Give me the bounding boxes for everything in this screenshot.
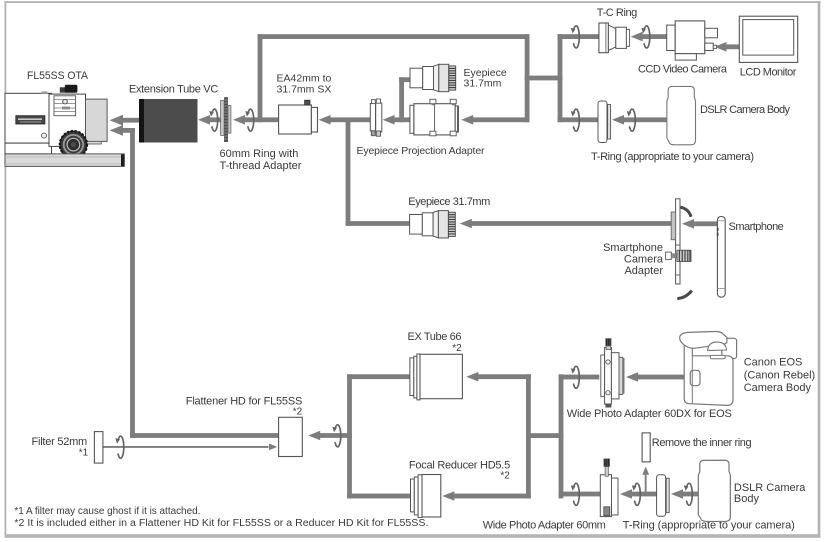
svg-text:*2: *2: [293, 406, 303, 417]
svg-text:EX Tube 66: EX Tube 66: [408, 331, 462, 343]
arrow into focal reducer: [442, 491, 454, 501]
thin arrow up to remove-inner-ring strip: [642, 467, 649, 475]
flattener HD box: [279, 417, 303, 456]
wire: 60mm ring to EA42 box: [245, 117, 280, 122]
svg-text:Wide Photo Adapter 60mm: Wide Photo Adapter 60mm: [483, 519, 606, 531]
arrow into extension tube right side: [198, 115, 210, 125]
arrow into telescope from flattener line: [110, 125, 124, 136]
60mm ring with T-thread adapter: [221, 101, 225, 136]
wire: smartphone row to middle eyepiece: [346, 221, 410, 226]
wire: 60DX arrow to Canon EOS: [638, 375, 685, 380]
wire: stub behind arrow to adapter body: [394, 117, 410, 122]
wire: vertical junction x260 up to top row: [258, 34, 263, 122]
wire: vertical1 top to EX tube left: [347, 374, 410, 379]
telescope black knob on top: [60, 87, 66, 92]
wire: vertical from telescope down to flattener row: [130, 128, 135, 438]
EA42mm adapter box: [279, 105, 312, 134]
svg-text:Filter 52mm: Filter 52mm: [32, 436, 88, 448]
svg-text:Adapter: Adapter: [624, 265, 663, 277]
rotation arrow right of 60mm ring: [245, 109, 253, 131]
smartphone: [717, 217, 725, 298]
telescope focus wheel: [60, 131, 87, 158]
svg-text:T-C Ring: T-C Ring: [597, 7, 638, 19]
rotation arrow on 60DX branch: [571, 366, 579, 388]
svg-text:Remove the inner ring: Remove the inner ring: [652, 437, 752, 449]
CCD video camera: [667, 25, 676, 50]
telescope focuser detail block: [54, 96, 76, 116]
eyepiece projection adapter body: [410, 105, 414, 133]
arrow into CCD from LCD: [714, 42, 726, 52]
T-ring bottom row: [657, 475, 670, 517]
smartphone adapter clamp pad: [671, 212, 675, 240]
focal reducer HD5.5: [411, 479, 415, 512]
arrow into projection adapter thin tube: [383, 115, 395, 125]
arrow into telescope from extension tube: [110, 115, 124, 126]
eyepiece 31.7mm middle: [410, 211, 456, 238]
svg-text:T-thread Adapter: T-thread Adapter: [220, 160, 302, 172]
svg-text:Body: Body: [734, 493, 760, 505]
DSLR camera body top row: [667, 86, 696, 144]
wire: vertical1 bottom to focal reducer left: [347, 494, 410, 499]
arrow into EX tube: [466, 372, 478, 382]
wire: bottom T-ring to DSLR: [683, 492, 701, 497]
smartphone adapter knob: [666, 252, 672, 259]
svg-text:31.7mm SX: 31.7mm SX: [277, 84, 332, 96]
arrow into projection adapter body: [461, 115, 473, 125]
wire: vertical 1 x349.5: [347, 374, 352, 498]
border frame bottom: [5, 534, 821, 538]
border frame right: [818, 1, 821, 537]
wire: vertical 3 x561: [559, 374, 564, 498]
wire: smartphone branch vertical x348: [346, 120, 351, 226]
svg-text:Wide Photo Adapter 60DX for EO: Wide Photo Adapter 60DX for EOS: [567, 408, 732, 420]
projection adapter screws: [430, 99, 436, 103]
arrow into middle eyepiece: [460, 219, 472, 229]
wire: T-C branch to funnel: [558, 34, 600, 39]
wire: smartphone to adapter stub: [694, 221, 718, 226]
filter 52mm: [94, 432, 103, 464]
rotation arrow right of 60mm adapter: [632, 483, 640, 505]
wire: thin filter line: [103, 446, 269, 448]
wire: focal reducer arrow to vertical 2: [454, 494, 531, 499]
telescope dovetail rail: [5, 154, 124, 167]
telescope top tab: [42, 91, 48, 93]
wire: eyepiece drop stub from eyepiece barrel: [399, 77, 411, 82]
arrow into EA42 right side: [319, 115, 331, 125]
svg-text:*2 It is included either in a: *2 It is included either in a Flattener …: [14, 518, 428, 529]
border frame left: [5, 1, 7, 537]
svg-text:Canon EOS: Canon EOS: [744, 357, 803, 369]
wire: vertical A x527: [525, 34, 530, 122]
border frame top: [5, 1, 821, 3]
svg-text:*2: *2: [452, 343, 462, 354]
svg-text:31.7mm: 31.7mm: [464, 77, 502, 89]
wire: eyepiece drop vertical: [399, 77, 404, 122]
wire: LCD to CCD stub: [726, 44, 740, 49]
Canon EOS camera body: [722, 338, 737, 358]
arrow into bottom T-ring: [671, 489, 683, 499]
svg-text:*1: *1: [79, 448, 89, 459]
wire: vertical 2 x528.4: [526, 374, 531, 498]
wire: eyepiece to smartphone adapter: [471, 221, 671, 226]
wire: vertical3 bottom to 60mm adapter: [559, 492, 601, 497]
svg-text:Flattener HD for FL55SS: Flattener HD for FL55SS: [186, 395, 302, 407]
svg-text:Smartphone: Smartphone: [603, 242, 663, 254]
telescope body screw: [42, 133, 47, 138]
wire: adapter body to right vertical A: [473, 117, 530, 122]
wire: flattener to vertical 1: [320, 433, 352, 438]
arrow into smartphone adapter: [682, 219, 694, 229]
arrow into T-C ring: [631, 32, 643, 42]
smartphone camera adapter bar: [676, 199, 680, 284]
wire: EX tube arrow to vertical 2: [478, 374, 531, 379]
wire: vertical3 top to 60DX adapter: [559, 375, 600, 380]
wide photo adapter 60DX: [601, 355, 605, 397]
T-C ring funnel: [599, 23, 609, 53]
arrow into flattener right side: [308, 431, 320, 441]
svg-text:(Canon Rebel): (Canon Rebel): [744, 369, 816, 381]
telescope lower clamp step: [5, 143, 52, 154]
wire: T-ring to DSLR body top row: [624, 117, 667, 122]
svg-text:T-Ring (appropriate to your ca: T-Ring (appropriate to your camera): [591, 151, 754, 163]
eyepiece 31.7mm top: [410, 64, 456, 91]
wire: H bridge top section: [525, 76, 563, 81]
rotation arrow right of flattener: [332, 425, 340, 447]
svg-text:Camera Body: Camera Body: [744, 382, 812, 394]
LCD monitor: [739, 16, 797, 62]
svg-text:FL55SS OTA: FL55SS OTA: [27, 70, 89, 82]
svg-text:LCD Monitor: LCD Monitor: [740, 67, 797, 79]
wire: flattener row horizontal to flattener box: [130, 433, 279, 438]
svg-text:CCD Video Camera: CCD Video Camera: [638, 64, 728, 76]
rotation arrow right of top T-ring: [627, 109, 635, 131]
T-ring top row: [598, 101, 611, 143]
svg-text:Focal Reducer HD5.5: Focal Reducer HD5.5: [409, 459, 510, 471]
svg-text:Extension Tube VC: Extension Tube VC: [129, 84, 218, 96]
svg-text:*2: *2: [500, 471, 510, 482]
wide photo adapter 60mm: [600, 475, 611, 517]
telescope logo plate: [16, 116, 45, 124]
rotation arrow left of 60mm ring: [209, 109, 217, 131]
wire: thin stem up to inner ring strip: [645, 474, 647, 494]
wire: top row horizontal: [258, 34, 530, 39]
arrow into 60mm ring: [233, 115, 245, 125]
extension tube VC box: [139, 99, 198, 143]
wire: T-ring branch from vertical B: [558, 117, 599, 122]
DSLR camera body bottom: [698, 460, 730, 521]
telescope drawtube: [86, 99, 108, 141]
svg-text:60mm Ring with: 60mm Ring with: [220, 148, 299, 160]
rotation arrow T-ring branch: [571, 109, 579, 131]
svg-text:*1 A filter may cause ghost if: *1 A filter may cause ghost if it is att…: [14, 506, 200, 517]
svg-text:DSLR Camera Body: DSLR Camera Body: [700, 104, 791, 116]
svg-text:DSLR Camera: DSLR Camera: [734, 482, 806, 494]
arrow into 60DX adapter: [626, 372, 638, 382]
wire: 60mm arrow to bottom T-ring: [632, 492, 657, 497]
svg-text:Eyepiece Projection Adapter: Eyepiece Projection Adapter: [357, 145, 486, 157]
wire: EA42 to thin projection tube: [330, 117, 370, 122]
arrow into 60mm adapter: [620, 489, 632, 499]
arrow into T-ring top row: [612, 115, 624, 125]
svg-text:Camera: Camera: [624, 254, 664, 266]
EX tube 66: [410, 358, 414, 396]
wire: flattener line horizontal stub at telescope: [121, 128, 135, 133]
wire: main row telescope to extension tube: [121, 118, 140, 123]
wire: vertical B x560: [558, 34, 563, 122]
wire: T-C arrow to CCD camera: [642, 34, 667, 39]
wire: H bridge bottom section: [526, 433, 563, 438]
rotation arrow on 60mm branch: [571, 483, 579, 505]
telescope focuser body: [49, 94, 86, 146]
svg-text:Eyepiece 31.7mm: Eyepiece 31.7mm: [408, 196, 490, 208]
rotation arrow right of bottom T-ring: [684, 483, 692, 505]
thin arrow from filter into flattener: [269, 444, 277, 451]
rotation arrow T-C branch: [571, 26, 579, 48]
rotation arrow on filter line: [115, 436, 123, 458]
eyepiece projection adapter thin tube: [370, 104, 375, 132]
telescope FL55SS OTA main tube: [5, 93, 52, 143]
smartphone adapter bottom clamp arc: [677, 291, 692, 299]
smartphone adapter top clamp arc: [681, 207, 692, 217]
remove the inner ring strip: [642, 433, 650, 462]
rotation arrow right of T-C ring: [641, 26, 649, 48]
wire: stub arrow-to-60mm-ring: [210, 117, 221, 122]
svg-text:Smartphone: Smartphone: [729, 221, 784, 233]
